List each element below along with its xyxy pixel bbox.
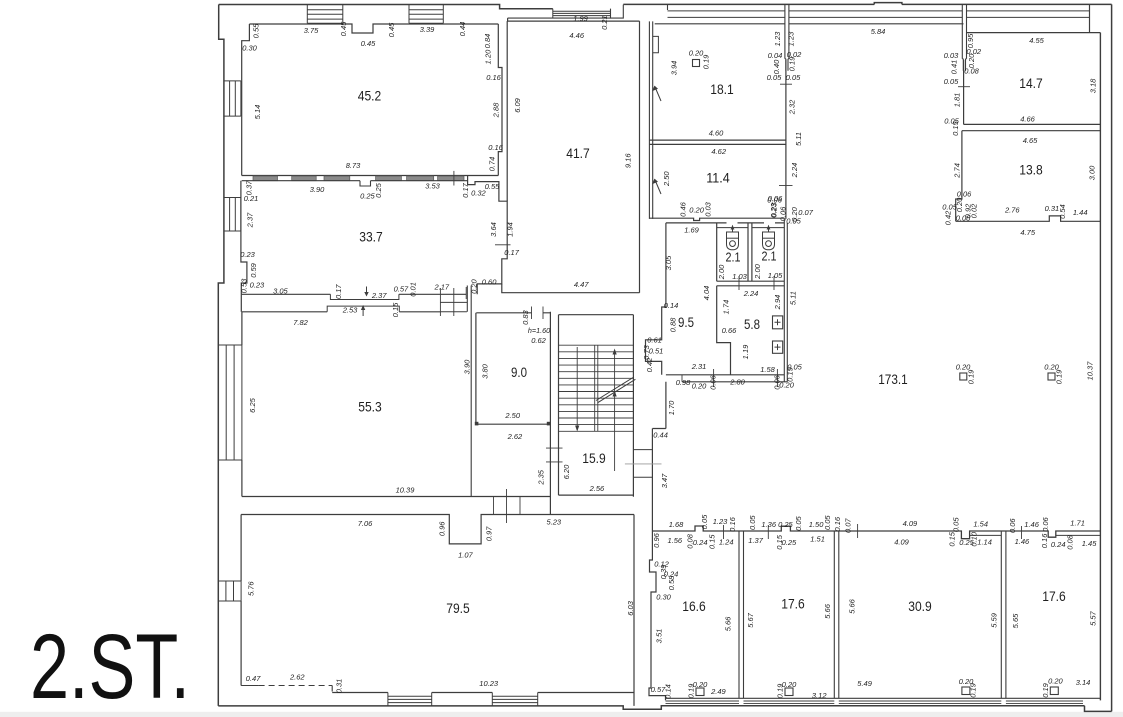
svg-text:1.03: 1.03 <box>732 272 747 281</box>
svg-text:1.20: 1.20 <box>483 49 492 64</box>
room 45.2 left wall <box>242 24 250 176</box>
door arrow up 55.3 <box>361 305 365 316</box>
svg-text:0.14: 0.14 <box>663 684 672 699</box>
svg-text:3.80: 3.80 <box>481 363 490 378</box>
svg-text:4.04: 4.04 <box>702 286 711 301</box>
svg-text:1.45: 1.45 <box>1082 539 1097 548</box>
window top-1 room 45.2 <box>307 4 343 23</box>
svg-text:3.05: 3.05 <box>273 287 288 296</box>
svg-text:15.9: 15.9 <box>582 450 606 466</box>
svg-text:3.12: 3.12 <box>812 691 827 700</box>
svg-text:2.74: 2.74 <box>953 163 962 179</box>
svg-text:0.19: 0.19 <box>1041 682 1050 697</box>
svg-text:1.14: 1.14 <box>977 537 992 546</box>
svg-text:0.03: 0.03 <box>944 51 959 60</box>
room 33.7 bottom wall <box>241 293 466 295</box>
svg-text:7.82: 7.82 <box>293 318 308 327</box>
svg-text:1.70: 1.70 <box>667 400 676 415</box>
svg-text:0.16: 0.16 <box>728 516 737 531</box>
svg-text:17.6: 17.6 <box>1042 588 1066 604</box>
pillar-1 top band <box>785 5 789 71</box>
svg-text:6.20: 6.20 <box>562 464 571 479</box>
svg-text:0.20: 0.20 <box>469 278 478 293</box>
svg-text:2.35: 2.35 <box>537 469 546 485</box>
svg-text:1.71: 1.71 <box>1070 519 1085 528</box>
svg-text:2.49: 2.49 <box>710 687 726 696</box>
wall right of 18.1/11.4 <box>785 60 787 219</box>
svg-text:2.56: 2.56 <box>589 484 605 493</box>
svg-text:5.49: 5.49 <box>857 679 872 688</box>
svg-text:0.42: 0.42 <box>645 357 654 372</box>
dimension labels room 30.9 <box>847 598 998 697</box>
column square 173.1 b <box>1044 362 1063 384</box>
svg-text:0.25: 0.25 <box>782 538 797 547</box>
svg-text:1.51: 1.51 <box>810 534 825 543</box>
bottom rooms bottom wall <box>666 697 1101 699</box>
top band inner wall line <box>655 23 964 25</box>
svg-text:3.64: 3.64 <box>489 222 498 237</box>
svg-text:3.51: 3.51 <box>654 629 663 644</box>
svg-text:0.66: 0.66 <box>722 326 737 335</box>
tick on 45.2 bottom right <box>453 171 455 186</box>
ticks wc bottom <box>682 369 777 387</box>
svg-text:16.6: 16.6 <box>682 598 706 614</box>
top band window lines right section <box>668 11 1090 18</box>
svg-text:1.36: 1.36 <box>761 520 776 529</box>
svg-text:0.07: 0.07 <box>843 518 852 533</box>
svg-text:5.65: 5.65 <box>1011 613 1020 628</box>
bottom rooms top wall with notches <box>652 526 1100 539</box>
dimension labels 173.1 left edge <box>653 400 676 488</box>
svg-text:0.44: 0.44 <box>458 22 467 37</box>
svg-text:2.50: 2.50 <box>504 411 520 420</box>
svg-text:2.31: 2.31 <box>691 362 707 371</box>
svg-text:0.17: 0.17 <box>504 248 519 257</box>
svg-text:0.21: 0.21 <box>244 194 259 203</box>
wall outer-left <box>218 5 224 706</box>
svg-text:4.62: 4.62 <box>711 147 726 156</box>
svg-text:18.1: 18.1 <box>710 81 734 97</box>
svg-text:2.00: 2.00 <box>753 263 762 279</box>
svg-text:4.47: 4.47 <box>574 280 589 289</box>
svg-text:2.24: 2.24 <box>790 163 799 179</box>
svg-text:0.54: 0.54 <box>1058 204 1067 219</box>
dimension labels rooms 14.7 13.8 <box>942 33 1097 237</box>
room 11.4 bottom wall <box>649 218 784 220</box>
svg-text:0.19: 0.19 <box>1054 369 1063 384</box>
door ticks 55.3-79.5 <box>494 489 521 523</box>
window left-4 (room 79.5) <box>218 581 241 601</box>
wc cubicle walls <box>717 223 752 281</box>
dimension labels room 9.0 <box>462 309 550 441</box>
svg-text:0.95: 0.95 <box>966 33 975 48</box>
wall outer-top-left section <box>219 5 553 9</box>
dimension labels room 79.5 <box>246 518 635 694</box>
svg-text:0.46: 0.46 <box>678 201 687 216</box>
svg-text:1.74: 1.74 <box>721 300 730 315</box>
svg-text:3.00: 3.00 <box>1088 165 1097 180</box>
room 13.8 bottom wall with notch <box>956 216 1101 221</box>
svg-text:7.06: 7.06 <box>358 519 373 528</box>
svg-text:4.65: 4.65 <box>1023 136 1038 145</box>
svg-text:45.2: 45.2 <box>358 87 382 103</box>
svg-text:0.05: 0.05 <box>786 73 801 82</box>
svg-text:14.7: 14.7 <box>1019 75 1043 91</box>
column square room 18.1 <box>693 60 700 67</box>
tick on 18.1 right wall <box>780 83 792 85</box>
svg-text:5.8: 5.8 <box>744 316 760 332</box>
svg-text:5.66: 5.66 <box>723 616 732 631</box>
dimension labels room 45.2 right <box>483 34 504 172</box>
door ticks wall 55.3-15.9 <box>546 448 563 462</box>
svg-text:1.44: 1.44 <box>1073 208 1088 217</box>
room 55.3 top wall <box>242 311 440 313</box>
svg-text:0.45: 0.45 <box>361 39 376 48</box>
tick on bottom rooms top wall <box>724 524 1022 539</box>
svg-text:2.24: 2.24 <box>743 289 759 298</box>
stair up arrow <box>613 349 617 472</box>
svg-text:3.05: 3.05 <box>664 255 673 270</box>
bottom window band stripes <box>666 701 1084 704</box>
svg-text:5.84: 5.84 <box>871 27 886 36</box>
svg-text:0.15: 0.15 <box>947 531 956 546</box>
tick on wall 41.7 left <box>495 244 511 246</box>
svg-text:5.76: 5.76 <box>247 581 256 596</box>
dimension labels room 17.6a <box>746 603 832 700</box>
svg-text:11.4: 11.4 <box>706 169 730 185</box>
svg-text:0.06: 0.06 <box>767 195 782 204</box>
svg-text:0.37: 0.37 <box>244 180 253 195</box>
svg-text:5.66: 5.66 <box>847 598 856 613</box>
svg-text:1.94: 1.94 <box>506 222 515 237</box>
svg-text:0.05: 0.05 <box>748 515 757 530</box>
svg-text:0.16: 0.16 <box>488 143 503 152</box>
svg-text:2.00: 2.00 <box>717 264 726 280</box>
svg-text:1.07: 1.07 <box>458 550 473 559</box>
room 18.1 left wall notch <box>653 36 659 52</box>
svg-text:8.73: 8.73 <box>346 161 361 170</box>
pillar-2 top band <box>962 5 966 71</box>
svg-text:0.23: 0.23 <box>250 280 265 289</box>
svg-text:2.88: 2.88 <box>492 102 501 118</box>
svg-text:2.76: 2.76 <box>1004 206 1020 215</box>
svg-text:4.55: 4.55 <box>1029 36 1044 45</box>
svg-text:0.17: 0.17 <box>334 284 343 299</box>
svg-text:3.90: 3.90 <box>310 185 325 194</box>
svg-text:2.37: 2.37 <box>245 212 254 228</box>
svg-text:0.16: 0.16 <box>1040 533 1049 548</box>
roof notch above 41.7/18.1 <box>611 5 668 19</box>
room 79.5 bottom-left corner <box>241 686 332 692</box>
svg-text:2.1: 2.1 <box>726 249 741 264</box>
svg-text:0.15: 0.15 <box>951 120 960 135</box>
svg-text:17.6: 17.6 <box>781 595 805 611</box>
svg-text:55.3: 55.3 <box>358 398 382 414</box>
svg-text:0.61: 0.61 <box>647 335 662 344</box>
svg-text:3.47: 3.47 <box>660 473 669 488</box>
svg-text:5.14: 5.14 <box>253 105 262 120</box>
tick on 11.4 right wall <box>779 185 793 187</box>
svg-text:0.20: 0.20 <box>782 680 797 689</box>
wc block top wall <box>666 222 784 224</box>
svg-text:0.20: 0.20 <box>692 381 707 390</box>
room 13.8 left wall <box>956 131 962 222</box>
room 79.5 right wall <box>633 515 635 706</box>
room 55.3 left wall segments <box>240 294 243 496</box>
svg-text:1.19: 1.19 <box>741 344 750 359</box>
svg-text:0.30: 0.30 <box>656 592 671 601</box>
dimension labels rooms 18.1 11.4 <box>662 48 788 221</box>
band line under 41.7 window <box>508 17 611 19</box>
dimension labels room 45.2 top <box>242 21 467 170</box>
svg-text:4.09: 4.09 <box>903 519 918 528</box>
room 33.7 left wall with jogs <box>241 181 247 295</box>
svg-text:2.1: 2.1 <box>762 248 777 263</box>
svg-text:0.19: 0.19 <box>701 54 710 69</box>
gray tick 15.9 right <box>625 463 662 465</box>
svg-text:2.53: 2.53 <box>342 305 358 314</box>
svg-text:3.18: 3.18 <box>1089 78 1098 93</box>
svg-text:0.40: 0.40 <box>772 59 781 74</box>
svg-text:0.45: 0.45 <box>387 22 396 37</box>
svg-text:0.19: 0.19 <box>787 56 796 71</box>
svg-text:6.09: 6.09 <box>513 97 522 112</box>
svg-text:3.90: 3.90 <box>462 359 471 374</box>
svg-text:2.ST.: 2.ST. <box>30 616 190 717</box>
svg-text:0.55: 0.55 <box>251 23 260 38</box>
room 11.4 top wall <box>649 143 786 145</box>
stair diagonal break line <box>596 377 635 403</box>
svg-text:0.01: 0.01 <box>409 282 418 297</box>
party wall band between 45.2 and 33.7 with radiator segments <box>242 176 468 186</box>
svg-text:0.24: 0.24 <box>1051 540 1066 549</box>
svg-text:1.37: 1.37 <box>748 536 763 545</box>
window left-3 (room 55.3) <box>218 345 242 460</box>
svg-text:0.41: 0.41 <box>949 60 958 75</box>
room 9.0 walls <box>476 312 551 515</box>
svg-text:3.53: 3.53 <box>425 182 440 191</box>
svg-text:1.05: 1.05 <box>768 271 783 280</box>
svg-text:0.42: 0.42 <box>943 210 952 225</box>
svg-text:0.16: 0.16 <box>486 73 501 82</box>
svg-text:30.9: 30.9 <box>908 598 932 614</box>
window bottom-2 (79.5) <box>492 693 537 706</box>
svg-text:0.06: 0.06 <box>1041 516 1050 531</box>
svg-text:5.23: 5.23 <box>546 518 561 527</box>
window left-2 (room 33.7) <box>224 198 241 232</box>
column square 17.6b <box>1050 687 1058 695</box>
svg-text:2.62: 2.62 <box>289 672 305 681</box>
wc cubicle bottom double wall <box>717 281 785 286</box>
svg-text:0.05: 0.05 <box>944 77 959 86</box>
svg-text:0.19: 0.19 <box>785 366 794 381</box>
svg-text:1.68: 1.68 <box>669 520 684 529</box>
door arrow cubicle 2 <box>767 225 771 232</box>
svg-text:0.06: 0.06 <box>957 189 972 198</box>
wall rooms-right boundary <box>1099 33 1101 701</box>
svg-text:0.04: 0.04 <box>768 51 783 60</box>
passage 2.17 ticks <box>440 287 466 316</box>
dimension labels wc block <box>642 206 814 390</box>
svg-text:0.45: 0.45 <box>339 21 348 36</box>
divider 30.9/17.6 <box>1001 531 1006 698</box>
svg-text:1.23: 1.23 <box>786 31 795 46</box>
svg-text:41.7: 41.7 <box>566 145 590 161</box>
svg-text:1.24: 1.24 <box>719 537 734 546</box>
svg-text:0.08: 0.08 <box>1065 534 1074 549</box>
svg-text:0.19: 0.19 <box>969 682 978 697</box>
column square 16.6 <box>696 688 704 696</box>
svg-text:1.46: 1.46 <box>1024 520 1039 529</box>
room 18.1 bottom wall <box>649 139 786 141</box>
svg-text:4.75: 4.75 <box>1020 228 1035 237</box>
svg-text:0.58: 0.58 <box>667 575 676 590</box>
svg-text:1.54: 1.54 <box>973 520 988 529</box>
wall outer-bottom-right corner <box>1085 706 1112 712</box>
room 14.7 walls <box>962 33 1101 131</box>
svg-text:5.59: 5.59 <box>990 612 999 627</box>
svg-text:1.23: 1.23 <box>773 31 782 46</box>
svg-text:1.99: 1.99 <box>573 14 588 23</box>
svg-text:0.17: 0.17 <box>461 182 470 197</box>
wc block bottom double wall <box>666 375 787 382</box>
svg-text:79.5: 79.5 <box>446 600 470 616</box>
svg-text:33.7: 33.7 <box>359 228 383 244</box>
svg-text:0.62: 0.62 <box>531 336 546 345</box>
svg-text:0.15: 0.15 <box>707 534 716 549</box>
svg-text:0.96: 0.96 <box>437 521 446 536</box>
room 16.6 left wall with jogs <box>649 531 666 700</box>
svg-text:2.62: 2.62 <box>507 432 523 441</box>
svg-text:0.24: 0.24 <box>693 538 708 547</box>
column square 17.6a <box>785 688 793 696</box>
svg-text:1.81: 1.81 <box>953 93 962 108</box>
door posts 9.0 <box>475 422 551 426</box>
svg-text:0.51: 0.51 <box>649 346 664 355</box>
svg-text:10.39: 10.39 <box>396 485 416 494</box>
svg-text:10.23: 10.23 <box>479 679 499 688</box>
svg-text:0.47: 0.47 <box>246 674 261 683</box>
svg-text:0.06: 0.06 <box>1008 518 1017 533</box>
svg-text:0.98: 0.98 <box>676 378 691 387</box>
column square 173.1 a <box>956 362 976 384</box>
door arrow room 18.1 <box>652 86 661 101</box>
svg-text:0.44: 0.44 <box>653 431 668 440</box>
svg-text:173.1: 173.1 <box>878 371 908 387</box>
svg-text:0.84: 0.84 <box>483 34 492 49</box>
svg-text:0.21: 0.21 <box>600 15 609 30</box>
svg-text:0.55: 0.55 <box>485 182 500 191</box>
svg-text:0.23: 0.23 <box>769 202 778 217</box>
dimension labels bottom rooms top row <box>669 514 1085 533</box>
svg-text:0.05: 0.05 <box>951 517 960 532</box>
divider 17.6/30.9 <box>834 531 839 698</box>
svg-text:9.16: 9.16 <box>624 153 633 168</box>
corridor wall double below wc <box>652 382 666 531</box>
svg-text:0.20: 0.20 <box>689 205 704 214</box>
bottom rooms top wall lower line segments <box>970 534 1101 536</box>
dimension labels room 16.6 <box>651 532 733 698</box>
svg-text:0.57: 0.57 <box>394 284 409 293</box>
svg-text:3.94: 3.94 <box>670 61 679 76</box>
divider 16.6/17.6 <box>739 531 744 698</box>
svg-text:13.8: 13.8 <box>1019 161 1043 177</box>
divider wall 33.7/41.7 <box>468 176 508 295</box>
room 45.2 bottom wall <box>242 175 499 177</box>
wc block right double wall <box>784 219 787 382</box>
svg-text:1.23: 1.23 <box>713 517 728 526</box>
wall outer-right <box>1111 4 1113 711</box>
svg-text:0.05: 0.05 <box>700 514 709 529</box>
dimension labels room 55.3 <box>248 302 415 494</box>
svg-text:9.5: 9.5 <box>678 314 694 330</box>
opening lines 15.9 right <box>633 450 652 478</box>
svg-text:h=1.60: h=1.60 <box>528 326 550 335</box>
svg-text:2.17: 2.17 <box>433 282 449 291</box>
door arrow cubicle 1 <box>731 225 735 232</box>
wall outer-top band upper line <box>623 3 1111 5</box>
svg-text:4.60: 4.60 <box>709 128 724 137</box>
tick on 14.7 left wall <box>958 86 970 88</box>
svg-text:2.50: 2.50 <box>662 171 671 187</box>
dimension labels room 15.9 <box>537 464 605 493</box>
wall between 9.5 and 5.8 <box>717 286 731 375</box>
svg-text:5.66: 5.66 <box>823 603 832 618</box>
svg-text:10.37: 10.37 <box>1085 361 1094 381</box>
room 55.3 right wall pair <box>467 286 471 497</box>
svg-text:6.25: 6.25 <box>248 397 257 412</box>
svg-text:0.30: 0.30 <box>242 43 257 52</box>
ticks cubicle doors <box>739 276 774 290</box>
svg-text:0.16: 0.16 <box>833 516 842 531</box>
wall outer-top-right step <box>1089 5 1091 33</box>
svg-text:4.09: 4.09 <box>894 537 909 546</box>
toilet 1 <box>727 232 739 250</box>
shaft wall between 41.7 and 18.1 <box>649 21 652 219</box>
svg-text:0.31: 0.31 <box>335 679 344 694</box>
svg-text:1.58: 1.58 <box>760 365 775 374</box>
svg-text:3.14: 3.14 <box>1076 678 1091 687</box>
door sill below 33.7 <box>330 294 399 299</box>
dimension labels room 33.7 <box>239 180 519 300</box>
passage 2.17 lines <box>440 302 467 311</box>
column square 30.9 <box>962 687 970 695</box>
svg-text:0.03: 0.03 <box>704 201 713 216</box>
svg-text:5.67: 5.67 <box>746 612 755 627</box>
svg-text:0.19: 0.19 <box>966 369 975 384</box>
stair down arrow <box>575 347 579 432</box>
window left-1 (room 45.2) <box>224 81 241 116</box>
svg-text:5.11: 5.11 <box>788 291 797 305</box>
room 45.2 top wall with notch <box>249 24 498 33</box>
door sill above 55.3 <box>327 306 399 312</box>
svg-text:0.05: 0.05 <box>786 216 801 225</box>
dimension labels room 17.6b <box>1011 610 1098 697</box>
dimension labels top corridor <box>767 27 886 217</box>
stairwell with treads <box>559 315 634 497</box>
svg-text:0.05: 0.05 <box>823 515 832 530</box>
door arrow down 33.7 <box>364 287 368 297</box>
svg-text:0.20: 0.20 <box>693 680 708 689</box>
room 79.5 bottom-left dashed <box>259 685 333 687</box>
room 55.3 bottom wall <box>242 496 551 498</box>
svg-text:3.75: 3.75 <box>304 26 319 35</box>
svg-text:0.59: 0.59 <box>249 262 258 277</box>
svg-text:1.50: 1.50 <box>809 520 824 529</box>
room 41.7 walls <box>502 18 640 293</box>
dimension labels bottom rooms second row <box>667 531 1097 550</box>
svg-text:0.25: 0.25 <box>778 520 793 529</box>
